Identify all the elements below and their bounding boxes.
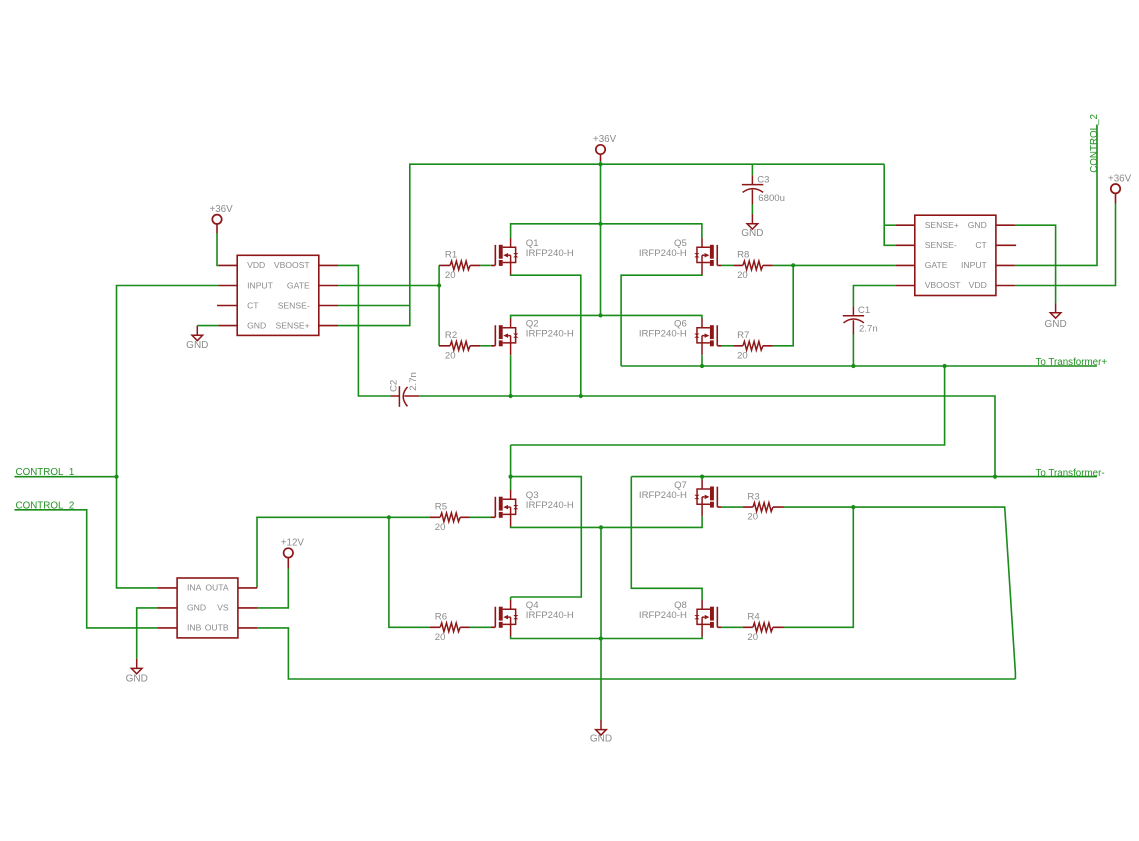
IC U2 right gate driver box — [915, 215, 996, 295]
wire VS pin to +12V supply — [257, 568, 288, 608]
pin SENSE+ right driver — [896, 224, 915, 226]
node R3/R4 splitter — [851, 505, 855, 509]
svg-text:IRFP240-H: IRFP240-H — [526, 500, 574, 511]
wire R5 right to Q3 gate — [470, 516, 491, 518]
svg-text:To Transformer+: To Transformer+ — [1036, 357, 1108, 368]
pin stub +36V right — [1115, 193, 1117, 203]
node R5/R6 splitter — [387, 515, 391, 519]
wire branch to right driver SENSE+ — [884, 224, 896, 226]
wire right driver INPUT to CONTROL_2 label — [1015, 125, 1097, 266]
wire C1 top to VBOOST of right driver — [853, 286, 896, 307]
label R8 20 — [737, 250, 749, 281]
svg-text:INB: INB — [187, 623, 202, 633]
svg-text:20: 20 — [445, 270, 456, 281]
ground symbol below C3 — [747, 214, 758, 229]
resistor R8 — [733, 261, 773, 270]
wire junction to INA pin of lower driver — [117, 477, 158, 588]
svg-text:CT: CT — [247, 300, 259, 310]
svg-text:CONTROL_2: CONTROL_2 — [16, 500, 75, 511]
transistor Q7 — [694, 480, 721, 516]
pin VDD left driver — [218, 264, 237, 266]
wire R3 left to Q7 gate — [722, 506, 743, 508]
resistor R2 — [439, 341, 480, 350]
wire net To Transformer- — [631, 476, 1097, 478]
wire lower driver GND pin to ground — [137, 608, 158, 659]
svg-text:IRFP240-H: IRFP240-H — [526, 248, 574, 259]
svg-text:R1: R1 — [445, 250, 457, 261]
transistor Q4 — [491, 600, 518, 637]
svg-text:VBOOST: VBOOST — [274, 260, 311, 270]
pin stub +36V left — [216, 224, 218, 233]
pin VBOOST right driver — [896, 285, 915, 287]
pin SENSE- right driver — [896, 244, 915, 246]
wire top bridge rail Q1/Q5 drains — [511, 224, 702, 239]
wire CONTROL_1 to junction — [15, 476, 117, 478]
svg-text:GND: GND — [968, 220, 987, 230]
svg-text:IRFP240-H: IRFP240-H — [526, 610, 574, 621]
wire Q3 drain to Q4 drain — [511, 477, 582, 601]
wire lower bridge top rail to transformer+ — [511, 366, 945, 445]
pin INPUT right driver — [996, 264, 1015, 266]
svg-text:R7: R7 — [737, 330, 749, 341]
resistor R5 — [430, 513, 470, 522]
pin labels lower driver — [187, 583, 229, 633]
transistor Q3 — [491, 490, 518, 527]
svg-text:IRFP240-H: IRFP240-H — [526, 329, 574, 340]
label Q7 IRFP240-H — [639, 480, 687, 501]
svg-text:CT: CT — [975, 240, 987, 250]
wire C1 bottom to transformer+ net — [852, 334, 854, 366]
label C2 2.7n rotated — [389, 372, 419, 392]
svg-text:GATE: GATE — [287, 280, 310, 290]
wire R3/R4 junction link — [784, 507, 854, 627]
svg-text:SENSE-: SENSE- — [278, 300, 310, 310]
svg-text:20: 20 — [737, 270, 748, 281]
svg-text:SENSE+: SENSE+ — [925, 220, 959, 230]
wire center vertical +36V to bridge — [600, 164, 602, 315]
wire junction up to R1 — [438, 265, 440, 285]
wire R2 right to Q2 gate — [480, 345, 491, 347]
ground symbol at left driver — [192, 326, 203, 341]
pin INA lower driver — [157, 587, 177, 589]
wire R1 right to Q1 gate — [480, 264, 491, 266]
pin GND right driver — [996, 224, 1015, 226]
svg-text:To Transformer-: To Transformer- — [1036, 468, 1105, 479]
transistor Q5 — [694, 238, 721, 275]
pin INB lower driver — [157, 627, 177, 629]
label C1 2.7n — [858, 305, 878, 335]
svg-text:INPUT: INPUT — [247, 280, 274, 290]
pin SENSE+ left driver — [319, 325, 338, 327]
wire CONTROL_2 to INB pin of lower driver — [15, 510, 158, 628]
wire Q5 source to transformer+ net — [621, 274, 702, 366]
pin OUTA lower driver — [238, 587, 257, 589]
ground symbol at right driver — [1050, 303, 1061, 318]
wire Q4/Q8 source rail — [511, 637, 702, 639]
svg-text:R4: R4 — [747, 612, 760, 623]
wire R6 right to Q4 gate — [470, 626, 491, 628]
svg-text:CONTROL_1: CONTROL_1 — [16, 467, 75, 478]
IC U3 lower driver box — [177, 578, 238, 638]
svg-text:INPUT: INPUT — [961, 260, 988, 270]
node gate splitter left — [437, 283, 441, 287]
transistor Q2 — [491, 319, 518, 356]
wire Q2 source down — [510, 355, 512, 396]
wire mid bridge rail Q2/Q6 drains — [511, 315, 702, 318]
wire C2 net to transformer- junction — [419, 396, 995, 477]
svg-text:GND: GND — [247, 320, 266, 330]
svg-text:20: 20 — [747, 512, 758, 523]
pin GND left driver — [218, 325, 237, 327]
pin stub +12V — [287, 558, 289, 569]
label Q4 IRFP240-H — [526, 600, 574, 621]
svg-text:C3: C3 — [757, 175, 769, 186]
svg-text:2.7n: 2.7n — [408, 372, 419, 391]
node mid bridge rail feed — [598, 313, 602, 317]
svg-text:GND: GND — [126, 673, 148, 684]
svg-text:R5: R5 — [435, 502, 447, 513]
svg-text:OUTB: OUTB — [205, 623, 229, 633]
label R4 20 — [747, 612, 760, 643]
wire R8 right to GATE of right driver — [773, 264, 896, 266]
capacitor C1 — [843, 306, 864, 334]
svg-text:INA: INA — [187, 583, 202, 593]
svg-text:R2: R2 — [445, 330, 457, 341]
pin VS lower driver — [238, 607, 257, 609]
svg-text:R8: R8 — [737, 250, 749, 261]
resistor R1 — [439, 261, 480, 270]
svg-text:20: 20 — [747, 632, 758, 643]
node gate splitter right R8 — [791, 263, 795, 267]
wire rail down to right driver SENSE- — [884, 164, 896, 245]
node Q3 drain — [509, 475, 513, 479]
node C1 bottom on transformer+ net — [851, 364, 855, 368]
label R2 20 — [445, 330, 457, 361]
wire Q3 drain vertical — [510, 445, 512, 490]
svg-text:GND: GND — [590, 733, 612, 744]
pin GND lower driver — [157, 607, 177, 609]
ground symbol bottom center — [596, 720, 607, 735]
wire right driver GND pin to ground — [1015, 225, 1056, 303]
wire ground vertical center bottom — [600, 527, 602, 720]
svg-text:GND: GND — [741, 228, 763, 239]
capacitor C3 — [742, 175, 763, 204]
wire R4 left to Q8 gate — [722, 626, 743, 628]
pin labels left driver — [247, 260, 310, 330]
svg-text:20: 20 — [445, 350, 456, 361]
label Q5 IRFP240-H — [639, 238, 687, 259]
wire Q7 drain stub — [701, 477, 703, 480]
svg-text:IRFP240-H: IRFP240-H — [639, 610, 687, 621]
svg-text:C2: C2 — [389, 380, 400, 392]
svg-text:+12V: +12V — [281, 538, 305, 549]
svg-text:GND: GND — [186, 340, 208, 351]
wire VBOOST of left driver to C2 — [338, 265, 391, 396]
svg-text:OUTA: OUTA — [205, 583, 229, 593]
pin CT right driver — [996, 244, 1016, 246]
wire SENSE- of left driver to +36V rail — [338, 305, 410, 307]
svg-text:C1: C1 — [858, 305, 870, 316]
wire R8 left to Q5 gate — [722, 264, 734, 266]
wire +36V middle supply to rail — [600, 161, 602, 164]
svg-text:GND: GND — [187, 603, 206, 613]
power symbol +36V middle — [596, 145, 605, 154]
wire transformer- down to Q8 drain — [631, 477, 702, 601]
node Q3/Q7 source rail to ground — [599, 525, 603, 529]
wire Q3/Q7 source rail — [511, 516, 702, 527]
wire Q6 source down — [701, 355, 703, 366]
wire R5/R6 junction link — [389, 517, 430, 627]
wire net To Transformer+ — [621, 365, 1097, 367]
node Q2 source on C2 net — [509, 394, 513, 398]
svg-text:IRFP240-H: IRFP240-H — [639, 490, 687, 501]
svg-text:IRFP240-H: IRFP240-H — [639, 248, 687, 259]
wire R7 left to Q6 gate — [722, 345, 734, 347]
label R3 20 — [747, 491, 759, 522]
svg-text:6800u: 6800u — [758, 193, 785, 204]
pin labels right driver — [925, 220, 988, 290]
wire GATE of left driver to R1/R2 junction — [338, 285, 439, 287]
svg-text:+36V: +36V — [210, 204, 234, 215]
IC U1 left gate driver box — [237, 255, 319, 335]
wire OUTB long bottom run — [257, 628, 1015, 679]
label Q6 IRFP240-H — [639, 319, 687, 340]
label R1 20 — [445, 250, 457, 281]
svg-text:VDD: VDD — [969, 280, 987, 290]
resistor R6 — [430, 623, 470, 632]
wire OUTA to R5/R6 junction — [257, 517, 430, 588]
svg-text:20: 20 — [435, 632, 446, 643]
svg-text:VS: VS — [217, 603, 229, 613]
wire R3 right run and diagonal — [784, 507, 1016, 679]
label Q8 IRFP240-H — [639, 600, 687, 621]
wire junction to INPUT pin of left driver — [117, 286, 219, 477]
svg-text:IRFP240-H: IRFP240-H — [639, 329, 687, 340]
svg-text:20: 20 — [435, 522, 446, 533]
svg-text:+36V: +36V — [593, 134, 617, 145]
pin INPUT left driver — [218, 285, 237, 287]
wire +36V left supply to VDD pin — [217, 233, 218, 265]
label Q3 IRFP240-H — [526, 490, 574, 511]
svg-text:CONTROL_2: CONTROL_2 — [1089, 114, 1100, 173]
pin CT left driver — [217, 305, 237, 307]
wire junction down to R2 — [438, 286, 440, 346]
pin VBOOST left driver — [319, 264, 338, 266]
pin GATE left driver — [319, 285, 338, 287]
transistor Q1 — [491, 238, 518, 275]
pin stub +36V middle — [600, 154, 602, 161]
svg-text:GND: GND — [1044, 319, 1066, 330]
label Q2 IRFP240-H — [526, 319, 574, 340]
pin SENSE- left driver — [319, 305, 338, 307]
svg-text:GATE: GATE — [925, 260, 948, 270]
node rail at +36V middle — [598, 162, 602, 166]
node C2 net on transformer- net — [993, 475, 997, 479]
svg-text:2.7n: 2.7n — [859, 324, 878, 335]
svg-text:+36V: +36V — [1108, 173, 1132, 184]
label R5 20 — [435, 502, 447, 533]
capacitor C2 — [391, 386, 419, 407]
svg-text:20: 20 — [737, 350, 748, 361]
pin VDD right driver — [996, 285, 1015, 287]
node CONTROL_1 branch — [114, 475, 118, 479]
resistor R7 — [733, 341, 773, 350]
wire C3 top to rail — [751, 164, 753, 175]
pin GATE right driver — [896, 264, 915, 266]
wire right driver VDD to +36V right supply — [1015, 203, 1116, 285]
resistor R4 — [743, 623, 784, 632]
label R7 20 — [737, 330, 749, 361]
node Q4/Q8 source rail to ground — [599, 636, 603, 640]
node Q7 drain — [700, 475, 704, 479]
svg-text:VDD: VDD — [247, 260, 265, 270]
wire R8/R7 junction link — [773, 265, 794, 345]
wire GND pin of left driver to ground — [197, 325, 218, 327]
power symbol +12V — [284, 548, 293, 557]
ground symbol at lower driver — [131, 659, 142, 674]
svg-text:SENSE-: SENSE- — [925, 240, 957, 250]
wire Q1 source to C2 net — [511, 274, 581, 396]
transistor Q6 — [694, 319, 721, 356]
node top bridge rail feed — [598, 222, 602, 226]
label C3 6800u — [757, 175, 785, 205]
label R6 20 — [435, 612, 447, 643]
svg-text:VBOOST: VBOOST — [925, 280, 962, 290]
svg-text:SENSE+: SENSE+ — [276, 320, 310, 330]
wire C3 bottom to ground — [751, 204, 753, 214]
resistor R3 — [743, 503, 784, 512]
transistor Q8 — [694, 600, 721, 637]
svg-text:R3: R3 — [747, 491, 759, 502]
node Q1 source branch on C2 net — [579, 394, 583, 398]
label Q1 IRFP240-H — [526, 238, 574, 259]
node lower rail branch on transformer+ net — [943, 364, 947, 368]
power symbol +36V left — [212, 215, 221, 224]
node Q6 source on transformer+ net — [700, 364, 704, 368]
pin OUTB lower driver — [238, 627, 257, 629]
power symbol +36V right — [1111, 184, 1120, 193]
wire SENSE+ of left driver up to +36V rail — [338, 164, 884, 325]
svg-text:R6: R6 — [435, 612, 447, 623]
